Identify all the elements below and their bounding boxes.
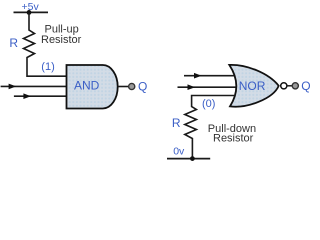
svg-text:R: R	[9, 36, 18, 50]
svg-text:0v: 0v	[173, 146, 185, 158]
svg-text:R: R	[172, 116, 181, 130]
svg-text:(1): (1)	[41, 61, 54, 73]
svg-text:Resistor: Resistor	[213, 133, 254, 145]
svg-text:AND: AND	[74, 78, 100, 92]
svg-text:+5v: +5v	[22, 1, 40, 13]
svg-text:Resistor: Resistor	[41, 34, 82, 46]
svg-text:(0): (0)	[202, 98, 215, 110]
svg-text:Q: Q	[138, 80, 147, 94]
svg-text:NOR: NOR	[239, 79, 266, 93]
svg-text:Q: Q	[301, 79, 310, 93]
